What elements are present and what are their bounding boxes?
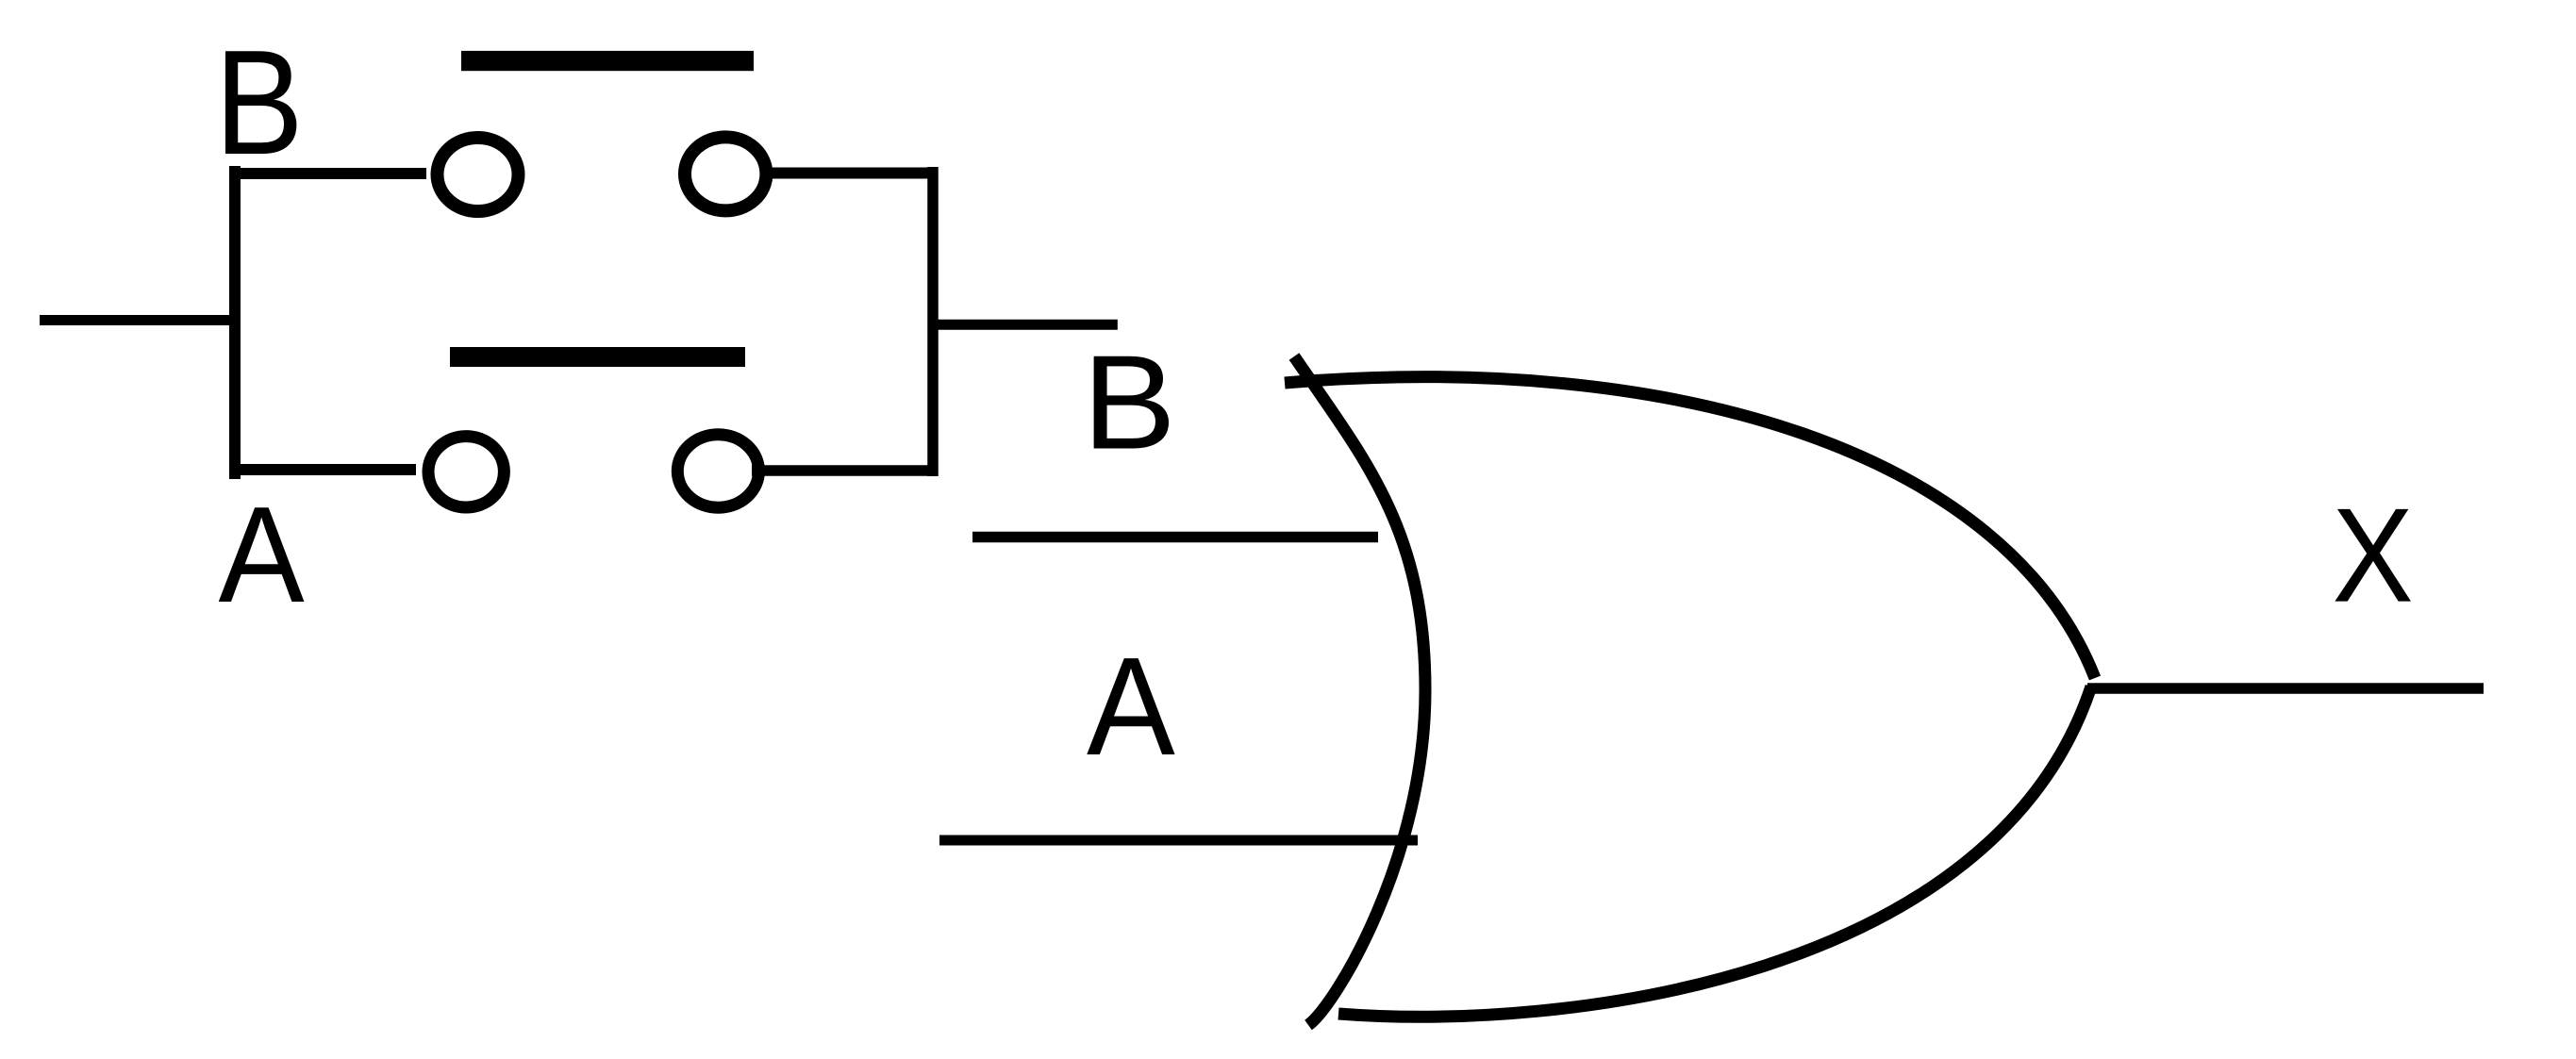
svg-text:A: A	[1087, 628, 1175, 785]
wire: input lead to parallel switch network	[40, 315, 235, 325]
wire: OR gate input A	[939, 836, 1418, 846]
svg-text:B: B	[1082, 327, 1175, 477]
pushbutton switch A contact 1	[428, 437, 504, 507]
wire: OR gate output X	[2087, 683, 2484, 694]
wire: OR gate input B	[972, 532, 1378, 543]
wire: network output lead	[933, 320, 1118, 330]
wire: switch A contact 2 to right bus	[752, 465, 928, 476]
pushbutton switch B actuator bar	[461, 51, 754, 71]
svg-text:X: X	[2333, 480, 2414, 630]
svg-text:A: A	[219, 477, 305, 631]
node: left junction bus	[229, 166, 241, 479]
wire: bottom branch to switch A contact 1	[235, 464, 416, 475]
pushbutton switch B contact 2	[685, 137, 766, 210]
svg-text:B: B	[214, 19, 303, 186]
node: right junction bus	[927, 167, 939, 476]
or-gate U1	[1285, 356, 2095, 1025]
pushbutton switch A contact 2	[677, 435, 758, 507]
pushbutton switch A actuator bar	[450, 347, 745, 367]
wire: switch B contact 2 to right bus	[764, 168, 938, 179]
wire: top branch to switch B contact 1	[229, 168, 426, 179]
pushbutton switch B contact 1	[438, 138, 519, 211]
